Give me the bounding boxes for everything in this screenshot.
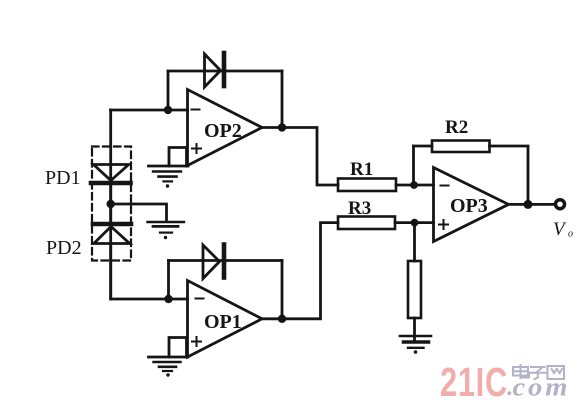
watermark com script (513, 373, 571, 402)
wire: midpoint to ground (111, 204, 167, 220)
svg-text:R1: R1 (350, 159, 373, 180)
wire: PD2 down to OP1 input (109, 244, 112, 300)
wire: R2 left horizontal (414, 145, 433, 148)
watermark dot (507, 391, 511, 395)
node: OP3 noninverting junction (411, 219, 419, 227)
resistor R2 (432, 141, 490, 153)
svg-text:OP1: OP1 (204, 311, 242, 333)
dashed enclosure around photodiodes (92, 147, 131, 261)
ground: OP2 noninverting input (149, 148, 189, 188)
node: OP2 output junction (278, 123, 286, 131)
diode: OP2 feedback diode (205, 53, 225, 87)
wire: OP2 feedback left vertical (167, 71, 170, 110)
wire: OP3 output (509, 203, 556, 206)
node: OP3 inverting junction (410, 181, 418, 189)
label Vo (553, 219, 573, 240)
wire: OP1 inverting input horizontal (111, 298, 188, 301)
node: OP1 output junction (278, 315, 286, 323)
diode: OP1 feedback diode (203, 245, 224, 279)
watermark chinese char wang (548, 366, 565, 379)
wire: OP2 output to R1 (262, 128, 338, 186)
svg-text:PD1: PD1 (45, 167, 81, 189)
svg-text:o: o (568, 229, 573, 240)
svg-text:21IC: 21IC (440, 359, 508, 405)
label PD2 (46, 237, 82, 259)
node: OP2 inverting junction (164, 106, 172, 114)
svg-text:OP2: OP2 (204, 120, 242, 142)
photodiode PD1 (91, 165, 131, 184)
op-amp OP3 (434, 168, 509, 242)
resistor R3 (338, 217, 395, 230)
ground: photodiode midpoint (148, 222, 185, 239)
ground: OP1 noninverting input (149, 338, 189, 377)
op-amp OP2 (188, 90, 263, 166)
node: OP1 inverting junction (164, 295, 172, 303)
terminal: output Vo (556, 200, 565, 209)
label R1 (350, 159, 373, 180)
svg-text:R2: R2 (445, 117, 468, 138)
wire: left column through photodiode branch (109, 110, 112, 299)
wire: OP2 feedback right vertical (281, 71, 284, 128)
wire: between PD1 and PD2 (109, 183, 112, 224)
wire: R2 feedback left vertical (412, 146, 415, 185)
label PD1 (45, 167, 81, 189)
svg-text:OP3: OP3 (450, 195, 488, 217)
wire: R1 to OP3 inverting input (396, 184, 434, 187)
wire: noninverting junction to grounded resistor (413, 223, 416, 261)
ground: below resistor (400, 336, 431, 354)
watermark chinese char dian (513, 365, 529, 378)
watermark 21IC logo (440, 359, 508, 405)
svg-text:PD2: PD2 (46, 237, 82, 259)
wire: OP1 feedback left vertical (167, 261, 170, 300)
svg-text:V: V (553, 219, 567, 240)
resistor R1 (338, 179, 396, 192)
op-amp OP1 (188, 281, 263, 358)
wire: R2 right to output (490, 146, 529, 204)
resistor: grounded (unlabeled) (408, 261, 421, 318)
wire: OP1 feedback right vertical (281, 261, 284, 319)
wire: OP2 inverting input horizontal (111, 109, 188, 112)
label R3 (348, 198, 371, 219)
wire: OP1 output to R3 (262, 223, 338, 319)
node: photodiode midpoint junction (107, 200, 115, 208)
node: OP3 output junction (524, 200, 533, 209)
wire: OP1 feedback top horizontal (169, 259, 283, 262)
wire: OP2 feedback top horizontal (168, 70, 282, 73)
wire: R3 to OP3 noninverting input (395, 221, 434, 224)
wire: resistor to ground (413, 318, 416, 341)
watermark chinese char zi (530, 367, 546, 379)
label R2 (445, 117, 468, 138)
photodiode PD2 (93, 224, 131, 244)
